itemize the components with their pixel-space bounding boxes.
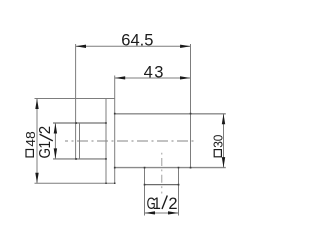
- svg-text:2: 2: [37, 126, 54, 134]
- dimension G1/2 (outlet) text: [147, 195, 178, 214]
- wall socket G1/2 top edge + ext: [53, 122, 106, 124]
- dimension G1/2 (outlet) line: [145, 212, 179, 214]
- svg-text:64.5: 64.5: [121, 31, 153, 49]
- dimension square-30 arrows: [222, 114, 225, 168]
- dimension G1/2 (socket) line: [54, 123, 56, 159]
- outlet stub right edge + extension down: [178, 168, 180, 216]
- svg-text:1: 1: [37, 141, 54, 149]
- wall socket G1/2 bottom edge + ext: [53, 158, 106, 160]
- body bottom edge + ext to square-30: [115, 167, 226, 169]
- flange back face: [105, 99, 107, 184]
- flange plate bottom edge + ext: [35, 182, 115, 184]
- outlet stub left edge + extension down: [144, 168, 146, 216]
- dimension 43 arrows: [115, 76, 191, 79]
- dimension square-48 line: [36, 99, 38, 184]
- dimension square-30 text: [212, 135, 226, 157]
- outlet stub vertical centerline: [161, 153, 163, 194]
- dimension square-48 text: [23, 131, 38, 157]
- svg-text:30: 30: [212, 135, 226, 148]
- dimension G1/2 (socket) text: [37, 126, 55, 159]
- svg-text:2: 2: [168, 195, 177, 213]
- flange plate (48x48) top edge + ext: [35, 98, 115, 100]
- extension 43 left / flange front face: [114, 76, 116, 184]
- extension line left of 64.5 / wall socket left face: [75, 44, 77, 159]
- extension line shared right (64.5 and 43) / body right face: [190, 44, 192, 168]
- main horizontal centerline: [65, 140, 196, 142]
- body top edge + ext to square-30: [115, 113, 226, 115]
- dimension G1/2 (outlet) arrows: [145, 211, 179, 214]
- svg-text:G: G: [37, 148, 54, 159]
- dimension square-30 line: [223, 114, 225, 168]
- dimension square-48 arrows: [35, 99, 38, 184]
- junction dots: [75, 113, 191, 186]
- svg-text:1: 1: [153, 195, 161, 213]
- dimension 64.5 line: [76, 45, 191, 47]
- dimension 43 line: [115, 77, 191, 79]
- wall socket thread end line: [79, 123, 81, 159]
- dimension G1/2 (socket) arrows: [54, 123, 57, 159]
- outlet stub bottom thread line: [145, 184, 179, 186]
- dimension 64.5 arrows: [75, 45, 190, 48]
- svg-text:43: 43: [144, 64, 165, 82]
